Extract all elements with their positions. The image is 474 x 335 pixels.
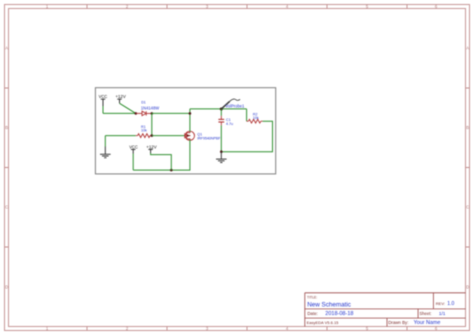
svg-text:2018-08-18: 2018-08-18 xyxy=(325,311,353,317)
net flag VCC (bottom) xyxy=(129,144,138,153)
wire R1 down to ground 1 xyxy=(104,136,106,147)
net flag +12V (bottom) xyxy=(146,144,156,153)
svg-text:1N4148W: 1N4148W xyxy=(141,106,159,111)
wire +12V bottom to junction G xyxy=(151,153,172,170)
net flag +12V (top) xyxy=(115,94,125,103)
svg-text:D1: D1 xyxy=(141,101,146,105)
svg-text:Date:: Date: xyxy=(307,311,318,316)
node junction G xyxy=(170,169,173,172)
wire drain up xyxy=(189,109,191,132)
svg-text:Your Name: Your Name xyxy=(414,320,441,326)
svg-text:VolProbe1: VolProbe1 xyxy=(225,104,245,109)
ground GND 2 xyxy=(216,152,227,163)
wire source down and left xyxy=(133,140,190,170)
svg-text:10k: 10k xyxy=(253,116,259,120)
wire R1 left from box edge column xyxy=(105,135,136,137)
svg-text:+12V: +12V xyxy=(115,94,125,99)
svg-text:Drawn By:: Drawn By: xyxy=(388,320,408,325)
wire VCC to junction A xyxy=(103,112,136,114)
svg-text:Sheet:: Sheet: xyxy=(419,311,431,316)
wire R2 corner down xyxy=(246,109,248,121)
svg-text:D: D xyxy=(466,285,469,290)
svg-text:A: A xyxy=(466,46,469,51)
svg-text:10k: 10k xyxy=(141,129,147,133)
svg-text:D: D xyxy=(5,285,8,290)
svg-text:1/1: 1/1 xyxy=(439,311,446,316)
node junction F xyxy=(220,150,223,153)
svg-text:+12V: +12V xyxy=(146,144,156,149)
wire C1 down to junction F xyxy=(220,125,222,151)
svg-text:A: A xyxy=(5,46,8,51)
svg-text:TITLE:: TITLE: xyxy=(307,295,317,299)
svg-text:1.0: 1.0 xyxy=(447,301,454,307)
svg-text:New Schematic: New Schematic xyxy=(307,302,351,309)
diode D1 1N4148W xyxy=(136,101,159,116)
wire VCC stub down xyxy=(102,106,104,113)
node junction A xyxy=(135,112,138,115)
wire junction E down to C1 xyxy=(220,109,222,116)
svg-text:VCC: VCC xyxy=(129,144,138,149)
transistor Q1 IRF9540NPBF xyxy=(185,131,221,141)
wire junction B to drain junction xyxy=(152,112,190,114)
svg-text:B: B xyxy=(5,125,8,130)
svg-text:4.7u: 4.7u xyxy=(226,122,233,126)
outline box around circuit xyxy=(95,88,275,174)
wire top run to R2 corner xyxy=(190,108,247,110)
wire junction B down to junction C xyxy=(151,113,153,135)
wire VCC bottom stub xyxy=(132,154,134,171)
node probe junction E xyxy=(220,108,223,111)
wire R2 right and return to junction F xyxy=(221,121,272,152)
svg-text:IRF9540NPBF: IRF9540NPBF xyxy=(197,137,221,141)
node junction C xyxy=(151,134,154,137)
svg-text:EasyEDA V5.6.15: EasyEDA V5.6.15 xyxy=(307,320,340,325)
svg-text:C: C xyxy=(466,205,469,210)
node drain junction D xyxy=(189,112,192,115)
resistor R1 10k xyxy=(136,125,152,138)
net flag VCC (top left) xyxy=(99,94,108,106)
capacitor C1 4.7u xyxy=(218,116,233,126)
title block (decorative) xyxy=(305,293,466,327)
svg-text:C: C xyxy=(5,205,8,210)
wire gate xyxy=(152,135,185,137)
resistor R2 10k xyxy=(247,112,263,123)
ground GND 1 xyxy=(100,147,111,158)
wire +12V diagonal to junction A xyxy=(120,103,136,113)
probe VolProbe1 xyxy=(221,99,245,109)
svg-text:VCC: VCC xyxy=(99,94,108,99)
svg-text:B: B xyxy=(466,125,469,130)
svg-text:REV:: REV: xyxy=(436,301,445,306)
node junction B xyxy=(151,112,154,115)
